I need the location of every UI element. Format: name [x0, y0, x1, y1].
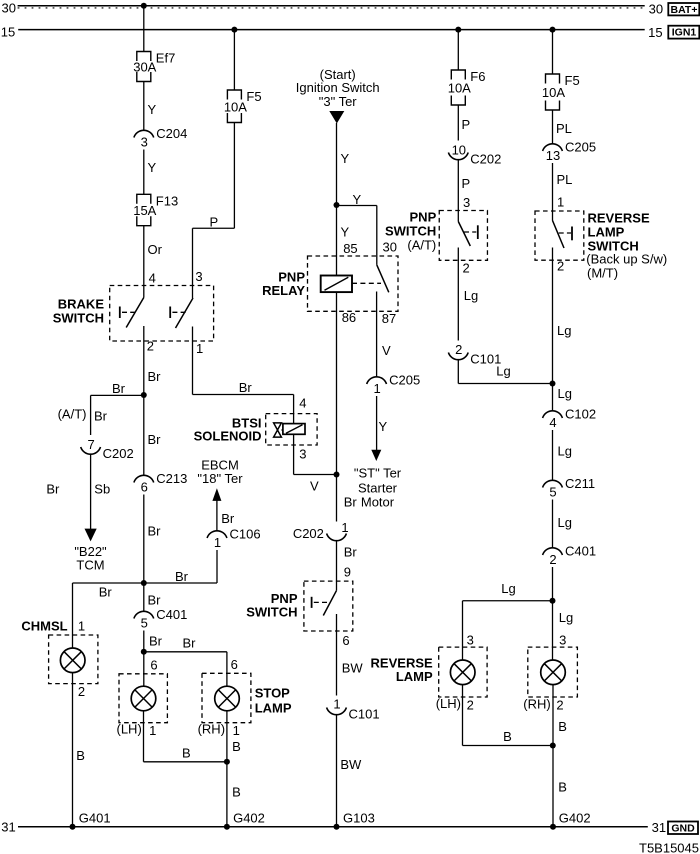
- svg-text:10A: 10A: [542, 85, 565, 100]
- wire C102 to C211, color Lg: [552, 430, 554, 480]
- svg-text:IGN1: IGN1: [672, 27, 697, 39]
- svg-text:Starter: Starter: [358, 481, 398, 496]
- svg-text:LAMP: LAMP: [255, 701, 292, 716]
- reverse lamp switch actuator: [571, 227, 573, 241]
- svg-text:1: 1: [373, 381, 380, 396]
- svg-text:BW: BW: [342, 661, 364, 676]
- connector C205 pin 1: [367, 377, 387, 384]
- svg-text:Ignition Switch: Ignition Switch: [296, 80, 380, 95]
- lamp STOP LH: [131, 686, 156, 711]
- svg-text:(RH): (RH): [523, 697, 550, 712]
- wire split to LH reverse lamp, color Lg: [463, 600, 553, 602]
- arrow to TCM: [85, 529, 97, 542]
- svg-text:3: 3: [463, 195, 470, 210]
- svg-text:6: 6: [231, 657, 238, 672]
- svg-text:2: 2: [147, 339, 154, 354]
- reverse lamp RH box: [528, 647, 578, 697]
- svg-text:9: 9: [344, 565, 351, 580]
- svg-text:Y: Y: [341, 151, 350, 166]
- wire pin1 to BTSI pin 4, color Br: [193, 394, 294, 396]
- svg-text:C401: C401: [565, 544, 596, 559]
- wire RH reverse lamp down, color B: [552, 685, 554, 827]
- connector C202 pin 1: [327, 534, 347, 541]
- svg-text:Or: Or: [148, 242, 163, 257]
- svg-text:LAMP: LAMP: [588, 225, 625, 240]
- fuse F13 15A: [137, 194, 151, 204]
- lamp CHMSL: [60, 648, 85, 673]
- svg-text:BW: BW: [340, 757, 362, 772]
- svg-text:C211: C211: [565, 476, 595, 491]
- svg-text:G402: G402: [559, 811, 591, 826]
- junction reverse lamp grounds: [550, 743, 556, 749]
- svg-text:1: 1: [341, 520, 348, 535]
- arrow to EBCM: [212, 488, 221, 501]
- fuse F6 10A: [451, 70, 465, 80]
- connector C211 pin 5: [543, 480, 563, 487]
- svg-text:1: 1: [149, 723, 156, 738]
- wire CHMSL drop: [72, 583, 74, 648]
- svg-text:C202: C202: [293, 526, 324, 541]
- svg-text:3: 3: [559, 633, 566, 648]
- svg-text:C202: C202: [103, 446, 134, 461]
- junction brake-out / A/T branch: [141, 392, 147, 398]
- junction on bus 15 at F6 drop: [455, 27, 461, 33]
- wire CHMSL/EBCM branch horizontal, color Br: [73, 582, 218, 584]
- brake switch contact 3-1 actuator: [169, 307, 171, 319]
- svg-text:2: 2: [557, 259, 564, 274]
- fuse Ef7 30A: [137, 52, 151, 62]
- brake switch pin 2 wire down, color Br: [143, 326, 145, 475]
- relay contact 30-87 blade: [377, 265, 389, 292]
- svg-text:Lg: Lg: [464, 288, 478, 303]
- svg-text:(A/T): (A/T): [407, 238, 436, 253]
- brake switch contact 4-2 actuator: [119, 307, 121, 319]
- node BAT+ terminal box: [668, 3, 699, 15]
- svg-text:2: 2: [78, 684, 85, 699]
- wire BTSI pin 3 to relay-86 net, color V: [293, 434, 295, 474]
- svg-text:Y: Y: [379, 419, 388, 434]
- wire C205 to starter arrow, color Y: [376, 396, 378, 450]
- connector C102 pin 4: [543, 411, 563, 418]
- svg-text:REVERSE: REVERSE: [588, 211, 650, 226]
- svg-text:CHMSL: CHMSL: [21, 619, 67, 634]
- wire bus15 to fuse F5: [233, 30, 235, 90]
- svg-text:15A: 15A: [133, 203, 156, 218]
- svg-text:(M/T): (M/T): [587, 266, 618, 281]
- svg-text:2: 2: [556, 698, 563, 713]
- relay coil U1: [321, 276, 352, 293]
- svg-text:10: 10: [452, 143, 466, 158]
- wire reverse switch pin 2 down, color Lg: [552, 248, 554, 411]
- svg-text:F13: F13: [156, 193, 178, 208]
- connector C204 pin 3: [134, 130, 154, 137]
- svg-text:G401: G401: [79, 811, 111, 826]
- wire C106 to EBCM arrow, color Br: [216, 501, 218, 531]
- brake switch contact 4-2 blade: [126, 298, 144, 328]
- junction A/T-M/T reverse feed: [550, 381, 556, 387]
- svg-text:BRAKE: BRAKE: [58, 297, 105, 312]
- svg-text:Br: Br: [148, 432, 162, 447]
- svg-text:1: 1: [78, 619, 85, 634]
- arrow to starter motor: [371, 450, 381, 461]
- connector C205 pin 13: [543, 144, 563, 151]
- svg-text:Motor: Motor: [361, 495, 395, 510]
- svg-text:"3" Ter: "3" Ter: [319, 94, 358, 109]
- wire C204 to F13, color Y: [143, 150, 145, 195]
- svg-text:1: 1: [557, 195, 564, 210]
- svg-text:Br: Br: [94, 409, 108, 424]
- svg-text:LAMP: LAMP: [396, 669, 433, 684]
- wire bus15 to fuse F5 (right): [552, 30, 554, 74]
- svg-text:Sb: Sb: [94, 482, 110, 497]
- svg-text:STOP: STOP: [255, 686, 290, 701]
- svg-text:2: 2: [463, 261, 470, 276]
- svg-text:31: 31: [652, 820, 666, 835]
- svg-text:3: 3: [141, 135, 148, 150]
- junction reverse lamp LH/RH split: [550, 598, 556, 604]
- svg-text:30: 30: [2, 1, 16, 16]
- svg-text:TCM: TCM: [76, 558, 104, 573]
- svg-text:"ST" Ter: "ST" Ter: [354, 466, 402, 481]
- connector C101 pin 1: [327, 708, 347, 715]
- reverse lamp switch 1-2 blade: [553, 221, 565, 249]
- PNP relay box: [308, 256, 399, 311]
- junction stop lamp LH/RH split: [141, 649, 147, 655]
- wire C213 to junction, color Br: [143, 495, 145, 584]
- svg-text:Br: Br: [149, 634, 163, 649]
- connector C401 pin 2: [543, 548, 563, 555]
- svg-text:Lg: Lg: [558, 444, 572, 459]
- PNP switch (lower) box: [304, 581, 353, 631]
- svg-text:PL: PL: [556, 121, 572, 136]
- svg-text:Br: Br: [148, 524, 162, 539]
- lamp STOP RH: [215, 686, 240, 711]
- wire LH stop lamp to ground join, color B: [143, 711, 145, 762]
- svg-text:1: 1: [233, 723, 240, 738]
- svg-text:Lg: Lg: [559, 610, 573, 625]
- wire bus15 to fuse F6: [457, 30, 459, 70]
- wire F5 to brake switch pin 3, color P: [233, 123, 235, 229]
- svg-text:Y: Y: [341, 225, 350, 240]
- svg-text:SOLENOID: SOLENOID: [194, 429, 262, 444]
- svg-text:SWITCH: SWITCH: [385, 224, 436, 239]
- svg-text:87: 87: [382, 311, 396, 326]
- stop lamp LH box: [119, 674, 167, 723]
- wire up to connector C106: [216, 550, 218, 583]
- junction stop-lamp feed split: [141, 580, 147, 586]
- svg-text:(LH): (LH): [117, 722, 142, 737]
- svg-text:Lg: Lg: [557, 323, 571, 338]
- bus 15 (ignition rail): [18, 29, 645, 31]
- svg-text:3: 3: [195, 269, 202, 284]
- node IGN1 terminal box: [668, 26, 699, 39]
- svg-text:4: 4: [299, 396, 306, 411]
- wire C202 to TCM arrow, color Sb: [90, 455, 92, 530]
- wire Ef7 to C204, color Y: [143, 82, 145, 131]
- svg-text:30: 30: [383, 240, 397, 255]
- wire C401 to stop lamp split, color Br: [143, 631, 145, 687]
- svg-text:13: 13: [546, 148, 560, 163]
- svg-text:Br: Br: [112, 381, 126, 396]
- node GND terminal box: [668, 822, 698, 835]
- svg-text:6: 6: [150, 658, 157, 673]
- svg-text:B: B: [503, 729, 512, 744]
- wire PNP A/T pin 2 down, color Lg: [457, 248, 459, 341]
- svg-text:Lg: Lg: [558, 386, 572, 401]
- svg-text:T5B15045: T5B15045: [639, 841, 699, 854]
- wire RH stop lamp down, color B: [226, 711, 228, 827]
- brake switch contact 3-1 blade: [176, 298, 194, 328]
- svg-text:10A: 10A: [448, 81, 471, 96]
- junction on bus 30 at Ef7 drop: [141, 3, 147, 9]
- PNP switch (A/T) box: [439, 211, 487, 261]
- svg-text:"18" Ter: "18" Ter: [197, 471, 243, 486]
- svg-text:7: 7: [87, 437, 94, 452]
- svg-text:P: P: [462, 176, 471, 191]
- svg-text:6: 6: [141, 480, 148, 495]
- wire bus30 to fuse Ef7: [143, 6, 145, 52]
- svg-text:Y: Y: [148, 160, 157, 175]
- PNP A/T switch actuator: [477, 225, 479, 239]
- CHMSL lamp box: [49, 635, 98, 684]
- connector C213 pin 6: [134, 475, 154, 482]
- svg-text:V: V: [310, 479, 319, 494]
- svg-text:2: 2: [549, 552, 556, 567]
- svg-text:3: 3: [299, 447, 306, 462]
- svg-text:15: 15: [648, 25, 662, 40]
- svg-text:4: 4: [149, 271, 156, 286]
- svg-text:PNP: PNP: [410, 210, 437, 225]
- wire to relay coil pin 85, color Y: [336, 206, 338, 276]
- connector C101 pin 2: [448, 353, 468, 360]
- svg-text:Br: Br: [183, 636, 197, 651]
- wire A/T branch horizontal, color Br: [91, 394, 144, 396]
- svg-text:(A/T): (A/T): [58, 407, 87, 422]
- svg-text:10A: 10A: [224, 99, 247, 114]
- junction start feed split: [334, 202, 340, 208]
- lamp REVERSE LH: [450, 660, 475, 685]
- wire PNP pin 6 to C101, color BW: [336, 614, 338, 696]
- svg-text:PL: PL: [557, 172, 573, 187]
- svg-text:86: 86: [342, 310, 356, 325]
- BTSI plunger symbol: [274, 423, 282, 430]
- svg-text:Br: Br: [148, 593, 162, 608]
- wire C202 to PNP switch pin 9, color Br: [336, 541, 338, 591]
- reverse lamp switch box: [535, 211, 584, 260]
- junction on bus 15 at F5 (right) drop: [550, 27, 556, 33]
- wire C401 to reverse lamp split, color Lg: [552, 567, 554, 660]
- svg-text:B: B: [232, 739, 241, 754]
- svg-text:30: 30: [649, 1, 663, 16]
- svg-text:2: 2: [467, 698, 474, 713]
- svg-text:C205: C205: [389, 373, 420, 388]
- svg-text:31: 31: [1, 820, 15, 835]
- wire C211 to C401, color Lg: [552, 500, 554, 548]
- BTSI solenoid coil: [283, 424, 305, 435]
- svg-text:Br: Br: [344, 495, 358, 510]
- svg-text:Br: Br: [239, 380, 253, 395]
- svg-text:Lg: Lg: [501, 581, 515, 596]
- svg-text:C205: C205: [565, 140, 596, 155]
- stop lamp RH box: [202, 673, 251, 722]
- svg-text:4: 4: [549, 415, 556, 430]
- svg-text:Br: Br: [148, 369, 162, 384]
- svg-text:F6: F6: [470, 69, 485, 84]
- svg-text:V: V: [382, 343, 391, 358]
- svg-text:Br: Br: [99, 585, 113, 600]
- wire split to RH stop lamp, color Br: [144, 651, 227, 653]
- wire A/T branch down to C202, color Br: [90, 395, 92, 435]
- PNP switch 9-6 actuator: [311, 597, 313, 608]
- svg-text:F5: F5: [565, 73, 580, 88]
- svg-text:B: B: [558, 719, 567, 734]
- BTSI solenoid box: [266, 414, 317, 445]
- svg-text:1: 1: [214, 535, 221, 550]
- connector C202 pin 10: [448, 153, 468, 160]
- junction on bus 15 at F5 drop: [231, 27, 237, 33]
- svg-text:B: B: [558, 780, 567, 795]
- svg-text:Y: Y: [353, 192, 362, 207]
- wire C205 to reverse lamp switch pin 1, color PL: [552, 163, 554, 221]
- junction stop lamp grounds: [224, 759, 230, 765]
- fuse F5 (right) 10A: [546, 74, 560, 84]
- fuse F5 10A: [227, 90, 241, 100]
- svg-text:F5: F5: [246, 89, 261, 104]
- reverse lamp LH box: [439, 647, 487, 697]
- brake switch enclosure box: [110, 286, 214, 342]
- svg-text:C202: C202: [470, 152, 501, 167]
- wire start feed down, color Y: [336, 123, 338, 205]
- svg-text:G402: G402: [233, 811, 265, 826]
- svg-text:85: 85: [343, 241, 357, 256]
- svg-text:B: B: [76, 748, 85, 763]
- svg-text:(Back up S/w): (Back up S/w): [586, 252, 667, 267]
- svg-text:SWITCH: SWITCH: [246, 605, 297, 620]
- wire CHMSL pin 2 to ground, color B: [72, 673, 74, 827]
- wire junction to C401: [143, 583, 145, 611]
- svg-text:6: 6: [342, 633, 349, 648]
- svg-text:Br: Br: [221, 511, 235, 526]
- PNP switch 9-6 blade: [323, 591, 336, 616]
- PNP A/T switch 3-2 blade: [458, 222, 470, 247]
- svg-text:Lg: Lg: [496, 364, 510, 379]
- wire C101 to reverse feed join, color Lg: [457, 360, 459, 384]
- wire brake pin 1 down, color Br: [192, 327, 194, 395]
- svg-text:B: B: [182, 746, 191, 761]
- svg-text:C106: C106: [230, 527, 261, 542]
- svg-text:Y: Y: [148, 102, 157, 117]
- svg-text:Br: Br: [46, 482, 60, 497]
- svg-text:5: 5: [141, 616, 148, 631]
- svg-text:B: B: [232, 785, 241, 800]
- wire C101 to ground G103, color BW: [336, 715, 338, 827]
- svg-text:5: 5: [549, 485, 556, 500]
- wire C202 to PNP A/T pin 3, color P: [457, 160, 459, 222]
- svg-text:C204: C204: [156, 126, 187, 141]
- wire relay pin 86 down, color Br: [336, 292, 338, 521]
- svg-text:G103: G103: [343, 811, 375, 826]
- svg-text:1: 1: [196, 341, 203, 356]
- wire F6 to C202, color P: [457, 105, 459, 141]
- connector C106 pin 1: [207, 531, 227, 538]
- svg-text:1: 1: [333, 697, 340, 712]
- svg-text:C101: C101: [349, 707, 380, 722]
- svg-text:C102: C102: [565, 407, 596, 422]
- lamp REVERSE RH: [541, 660, 566, 685]
- bus 31 (ground rail): [18, 826, 648, 828]
- svg-text:P: P: [462, 117, 471, 132]
- svg-text:(LH): (LH): [436, 696, 461, 711]
- svg-text:3: 3: [467, 633, 474, 648]
- wire relay pin 87 down, color V: [376, 292, 378, 377]
- svg-text:2: 2: [455, 342, 462, 357]
- svg-text:RELAY: RELAY: [262, 283, 305, 298]
- svg-text:C213: C213: [156, 471, 187, 486]
- svg-text:SWITCH: SWITCH: [53, 311, 104, 326]
- svg-text:30A: 30A: [133, 60, 156, 75]
- connector C202 pin 7: [81, 447, 101, 454]
- svg-text:Br: Br: [344, 545, 358, 560]
- bus 30 (battery feed rail): [18, 5, 645, 7]
- svg-text:15: 15: [1, 25, 15, 40]
- connector C401 pin 5: [134, 611, 154, 618]
- svg-text:P: P: [210, 214, 219, 229]
- svg-text:Lg: Lg: [558, 515, 572, 530]
- svg-text:(RH): (RH): [198, 722, 225, 737]
- svg-text:Ef7: Ef7: [156, 51, 176, 66]
- junction relay-86 / BTSI net: [334, 472, 340, 478]
- svg-text:BAT+: BAT+: [671, 4, 698, 16]
- svg-text:GND: GND: [671, 823, 695, 835]
- svg-text:Br: Br: [175, 569, 189, 584]
- wire LH reverse lamp to ground join, color B: [462, 685, 464, 746]
- wire branch to relay pin 30, color Y: [337, 205, 377, 207]
- svg-text:C401: C401: [156, 607, 187, 622]
- wire F13 to brake switch pin 4, color Or: [143, 226, 145, 298]
- wire F5 to C205, color PL: [552, 110, 554, 144]
